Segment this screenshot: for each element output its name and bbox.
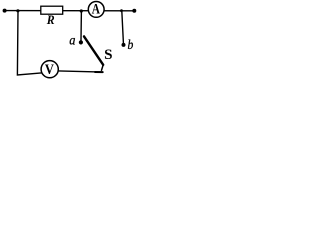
- svg-text:A: A: [92, 2, 101, 18]
- svg-text:b: b: [128, 38, 134, 53]
- svg-text:V: V: [45, 62, 54, 78]
- svg-text:a: a: [69, 32, 75, 47]
- svg-text:R: R: [46, 13, 55, 27]
- svg-text:S: S: [104, 46, 112, 63]
